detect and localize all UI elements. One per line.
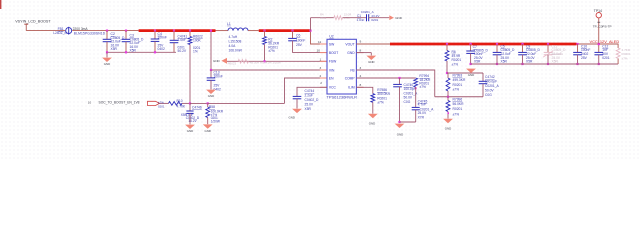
resistor R6 [446,44,448,51]
wire R6 to node A [446,61,448,73]
svg-text:X5R: X5R [526,60,533,64]
wire port to R10 [160,102,169,104]
svg-text:100nF: 100nF [296,38,305,42]
ground C13 [206,90,216,94]
ground IC [366,56,376,60]
capacitor C13 VIN decouple [210,70,212,78]
svg-text:25V: 25V [581,56,588,60]
wire snubber mid [343,17,367,19]
svg-text:11: 11 [318,40,321,44]
output bus thin tail [577,43,619,45]
svg-text:VCC_12V_ALED: VCC_12V_ALED [590,39,620,44]
DNI resistor snubber faded [334,16,343,20]
wire R2 to FSW line [264,45,266,62]
svg-text:SW: SW [329,42,335,46]
svg-text:GND: GND [347,51,355,55]
svg-text:25.0V: 25.0V [305,103,314,107]
junction bus C9 [521,43,523,45]
wire C4746 gnd [189,113,191,124]
svg-text:X5R: X5R [111,47,118,51]
ground R7996 [443,119,453,123]
svg-text:499.3KR: 499.3KR [453,78,466,82]
ILIM wire [356,87,372,93]
svg-text:1: 1 [320,57,322,61]
wire R7996 gnd [447,112,449,119]
svg-text:0201: 0201 [371,18,378,22]
FB wire [356,70,434,97]
svg-text:GND: GND [104,62,110,66]
capacitor C7 decouple [470,44,472,51]
junction rail C5 [496,63,498,65]
svg-text:3: 3 [360,66,362,70]
capacitor C4744 [293,96,302,98]
svg-text:4B.30R RC041% 1/20W: 4B.30R RC041% 1/20W [250,60,281,64]
wire R58 to gnd [207,103,209,107]
wire bus to VIN [210,31,212,70]
svg-text:GND: GND [445,127,451,131]
junction C3 [125,30,127,32]
ground output rail [466,69,476,73]
svg-text:1.0nF: 1.0nF [178,38,186,42]
svg-text:GND: GND [368,60,374,64]
svg-text:C0G: C0G [485,93,492,97]
svg-text:C4744: C4744 [305,89,315,93]
svg-text:C4746: C4746 [192,105,202,109]
junction COMP C4740 [398,77,400,79]
ferrite bead FB1 [66,28,72,34]
svg-text:GND: GND [208,94,214,98]
junction rail C10 [576,63,578,65]
wire snubber riser [310,18,312,31]
svg-text:ILIM: ILIM [348,86,355,90]
svg-text:100K: 100K [193,38,202,42]
svg-text:±7%: ±7% [268,49,275,53]
wire R7986 gnd [372,102,374,113]
svg-text:GND: GND [289,115,295,119]
svg-text:0402: 0402 [158,47,166,51]
svg-text:COMP: COMP [345,76,356,80]
junction C2 [106,30,108,32]
wire C4745 to shared gnd [400,121,416,123]
svg-text:VCC: VCC [329,86,337,90]
node A line [447,72,483,74]
svg-text:9: 9 [360,39,362,43]
border tick top-left [0,0,1,9]
wire input to FB1 [26,30,65,32]
capacitor C4746 EN filter [189,103,191,111]
resistor R2 [264,31,266,37]
ground R7986 [368,114,378,118]
resistor R7996 [446,101,450,112]
svg-text:C0G: C0G [404,100,411,104]
svg-text:3: 3 [320,66,322,70]
svg-text:106.0mR: 106.0mR [229,49,243,53]
junction EN node C4746 [189,102,191,104]
capacitor C5 [496,44,498,52]
ground C4744 [292,109,302,113]
svg-text:L24DZ_B: L24DZ_B [53,31,66,35]
junction rail C3 [125,51,127,53]
junction C4 [154,30,156,32]
junction R7994 C4745 [415,87,417,89]
EN wire to corner [208,102,285,104]
wire bus corner to SW [311,31,328,44]
svg-text:SOC_TO_BOOST_EN_1V8: SOC_TO_BOOST_EN_1V8 [99,101,140,105]
svg-text:R7993: R7993 [453,74,463,78]
svg-text:1/20W: 1/20W [211,120,220,124]
capacitor C9 [522,44,524,52]
junction rail start [470,63,472,65]
DNI strike marks C11 [543,51,553,57]
ground R58 [203,124,213,128]
svg-text:R0201: R0201 [453,83,463,87]
DNI resistor R6023 faded [238,59,249,63]
svg-text:VSYIN_LCD_BOOST: VSYIN_LCD_BOOST [15,19,51,23]
svg-text:±7%: ±7% [622,56,628,60]
junction rail C4 [154,51,156,53]
capacitor C2 [106,31,108,40]
TP14 stem [598,18,600,44]
svg-text:8: 8 [360,83,362,87]
junction C6 [291,30,293,32]
resistor R58 pull-down [206,107,210,118]
junction bus C11 [547,43,549,45]
svg-text:0201: 0201 [602,56,610,60]
input bus thick [139,29,216,32]
junction rail C11 [547,63,549,65]
junction VIN C13 [210,69,212,71]
junction FSW R2 [263,60,265,62]
svg-text:100.0pF: 100.0pF [485,79,497,83]
svg-text:C6: C6 [296,33,300,37]
svg-text:C0402_D: C0402_D [305,98,320,102]
svg-text:50.0V: 50.0V [485,89,494,93]
svg-text:GND: GND [468,73,474,77]
junction bus C5 [496,43,498,45]
svg-text:BLM15PG330SN1D: BLM15PG330SN1D [74,31,106,35]
resistor R7986 [371,94,375,103]
svg-text:GND: GND [204,129,210,133]
capacitor C10 [577,44,579,52]
svg-text:0402: 0402 [320,16,327,20]
DNI resistor faded output [616,48,620,59]
ground C4746 [185,125,195,129]
svg-text:25V: 25V [296,43,303,47]
COMP wire [356,77,415,79]
svg-text:X5R: X5R [501,60,508,64]
capacitor C11 [547,44,549,52]
capacitor C4745 [415,87,417,107]
junction rail C12 [598,63,600,65]
capacitor C4742 feedforward [482,73,484,81]
VOUT wire [356,43,390,45]
svg-text:1.0nF: 1.0nF [357,18,365,22]
svg-text:50.2V: 50.2V [178,49,187,53]
GND flag snubber [389,15,394,20]
junction R2 [263,30,265,32]
output ground rail [471,63,618,65]
junction bus VIN [210,30,212,32]
svg-text:4.7uH: 4.7uH [229,35,238,39]
svg-text:L1: L1 [227,22,231,26]
junction bus snubber [309,30,311,32]
capacitor C3 [125,31,127,40]
svg-text:0201: 0201 [158,104,165,108]
svg-text:R10: R10 [177,99,183,103]
junction node A [446,72,448,74]
FB node line [435,96,483,98]
VIN line [211,69,327,71]
svg-text:GND: GND [395,16,403,20]
input bus thick right of L1 [259,29,311,32]
capacitor C4741 [173,31,175,41]
capacitor C6 bootstrap [292,31,294,39]
svg-text:U2: U2 [329,34,333,38]
svg-text:±7%: ±7% [453,112,460,116]
svg-text:8: 8 [360,48,362,52]
snubber wire left [311,17,334,19]
svg-text:1%: 1% [193,50,198,54]
svg-text:±7%: ±7% [452,62,459,66]
wire R10 to EN node [182,102,190,104]
wire bus tail corner [617,44,619,48]
wire C4745 down [415,110,417,122]
svg-text:±7%: ±7% [453,88,460,92]
junction TP14 bus [598,43,600,45]
U2 pin legs [320,43,327,45]
svg-text:±7%: ±7% [377,101,384,105]
junction rail C9 [521,63,523,65]
svg-text:±7%: ±7% [419,85,426,89]
svg-text:2: 2 [320,81,322,85]
svg-text:2.2uF: 2.2uF [305,94,313,98]
wire from net tie down [25,24,27,30]
capacitor C4 [154,31,156,39]
ground left rail [106,52,108,57]
GND pin wire [356,52,371,54]
resistor R7994 comp [414,78,418,87]
svg-text:R58: R58 [209,105,215,109]
svg-text:TP_C0PS-TP: TP_C0PS-TP [593,24,612,28]
svg-text:X5R: X5R [305,107,312,111]
svg-text:L151508: L151508 [229,40,242,44]
junction C4741 [173,30,175,32]
junction rail C2 [106,51,108,53]
TP14 tick [597,21,600,23]
svg-text:GND: GND [369,122,375,126]
capacitor C12 [598,44,600,52]
resistor R7993 [446,78,450,91]
svg-text:4.7nF: 4.7nF [418,103,426,107]
junction shared gnd [398,121,400,123]
svg-text:100nF: 100nF [158,36,167,40]
junction bus C12 [598,43,600,45]
svg-text:TPS61236RWLR: TPS61236RWLR [326,94,357,99]
junction R6022 [189,30,191,32]
FSW wire [227,60,327,62]
svg-text:GND: GND [397,132,403,136]
svg-text:GND: GND [187,129,193,133]
svg-text:4: 4 [360,74,362,78]
EN wire rise [285,78,328,103]
VCC wire [297,87,327,96]
ground C4740 C4745 shared [395,124,405,128]
svg-text:EN: EN [329,76,334,80]
svg-text:X5R: X5R [474,60,481,64]
svg-text:VOUT: VOUT [345,42,354,46]
junction EN node R58 [207,102,209,104]
svg-text:56.0KR: 56.0KR [453,102,465,106]
left ground rail [107,51,176,53]
svg-text:4.70K: 4.70K [177,104,186,108]
svg-text:R7996: R7996 [453,98,463,102]
svg-text:4.0A: 4.0A [229,44,237,48]
svg-text:10: 10 [317,48,321,52]
junction bus R6 [446,43,448,45]
svg-text:100nF: 100nF [214,74,223,78]
resistor R6022 pull-up [189,31,191,37]
capacitor C4740 [399,78,401,84]
IC U2 TPS61236 [327,39,356,94]
junction bus C7 [470,43,472,45]
svg-text:X7R: X7R [418,115,425,119]
svg-text:VIN: VIN [329,68,335,72]
svg-text:X5R: X5R [552,60,559,64]
svg-text:R0201: R0201 [453,107,463,111]
svg-text:R6023: R6023 [228,62,237,66]
svg-text:BOOT: BOOT [329,51,338,55]
capacitor C1 snubber [367,14,369,21]
svg-text:C0201_A: C0201_A [485,84,500,88]
junction FB R7996 [447,96,449,98]
wire FB1 to bus [72,30,138,32]
EN wire middle [190,102,208,104]
svg-text:GND: GND [213,59,221,63]
svg-text:10: 10 [88,101,92,105]
wire R6022 down to EN node [189,45,191,104]
junction bus C10 [576,43,578,45]
output bus thick [390,43,577,46]
net tie VSYIN_LCD_BOOST [24,23,28,25]
junction R7996 pin [447,112,449,114]
BOOT wire [293,52,328,54]
svg-text:2: 2 [320,74,322,78]
wire snubber right [369,17,390,19]
svg-text:FSW: FSW [329,60,337,64]
